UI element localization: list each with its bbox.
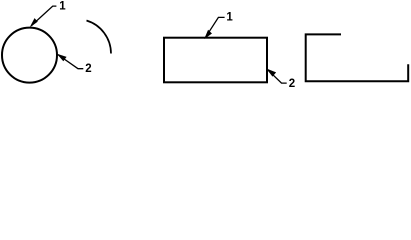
leader line 1 (circle) bbox=[31, 6, 56, 26]
arc bbox=[87, 21, 112, 54]
channel polyline bbox=[306, 34, 409, 81]
circle bbox=[2, 28, 57, 83]
leader line 2 (rectangle) bbox=[268, 70, 287, 83]
svg-text:2: 2 bbox=[85, 63, 91, 75]
arrowhead 1 (circle) bbox=[30, 19, 37, 27]
leader line 2 (circle) bbox=[58, 55, 83, 69]
rectangle bbox=[164, 38, 267, 83]
arrowhead 1 (rectangle) bbox=[205, 30, 212, 38]
arrowhead 2 (circle) bbox=[58, 54, 67, 61]
leader line 1 (rectangle) bbox=[206, 17, 225, 37]
svg-text:2: 2 bbox=[289, 78, 295, 90]
svg-text:1: 1 bbox=[226, 12, 233, 24]
arrowhead 2 (rectangle) bbox=[267, 69, 276, 76]
svg-text:1: 1 bbox=[59, 1, 66, 13]
